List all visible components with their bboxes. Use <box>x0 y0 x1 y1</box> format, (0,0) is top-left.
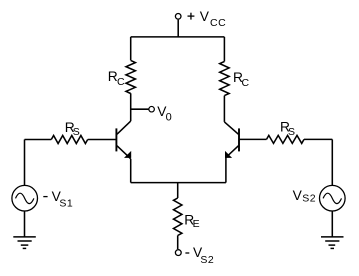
transistor Q1 base bar <box>115 128 117 151</box>
wire left collector branch lower <box>130 93 132 121</box>
minus sign of bottom VS2 label <box>185 252 189 254</box>
resistor RC right <box>220 62 229 96</box>
transistor Q2 emitter lead <box>226 146 239 158</box>
svg-text:0: 0 <box>166 112 173 124</box>
resistor RE <box>174 198 182 236</box>
node V0 terminal <box>149 106 155 112</box>
wire right source bottom <box>331 211 333 237</box>
node -VS2 terminal <box>175 250 181 256</box>
wire VCC stub <box>177 20 179 37</box>
wire top rail <box>131 36 225 38</box>
resistor RC left <box>126 60 135 93</box>
wire RE bottom <box>177 236 179 250</box>
wire V0 tap <box>131 108 149 110</box>
transistor Q1 emitter arrow <box>124 151 131 158</box>
transistor Q2 base bar <box>238 128 240 151</box>
wire left source top <box>24 140 26 186</box>
ground right <box>321 237 344 249</box>
resistor RS left <box>51 136 87 144</box>
wire right source top <box>331 139 333 185</box>
wire emitter rail <box>131 182 226 184</box>
transistor Q1 collector lead <box>117 121 131 134</box>
wire left collector branch upper <box>130 37 132 60</box>
svg-text:V: V <box>293 188 303 203</box>
wire Q2 emitter down <box>225 157 227 182</box>
node +VCC terminal <box>175 13 181 19</box>
wire right collector branch lower <box>223 96 225 122</box>
wire right base segment a <box>239 138 267 140</box>
wire left base segment b <box>25 139 52 141</box>
transistor Q2 collector lead <box>224 122 238 134</box>
ground left <box>13 237 36 249</box>
wire RE tap <box>177 183 179 198</box>
svg-text:E: E <box>193 218 201 230</box>
svg-text:S: S <box>288 126 296 138</box>
svg-text:CC: CC <box>210 17 226 29</box>
transistor Q1 emitter lead <box>117 146 131 159</box>
svg-text:S1: S1 <box>59 197 73 209</box>
minus sign of VS1 label <box>43 196 47 198</box>
svg-text:C: C <box>117 76 125 88</box>
source VS1 <box>12 185 38 211</box>
svg-text:S2: S2 <box>200 254 214 266</box>
svg-text:S2: S2 <box>302 193 316 205</box>
resistor RS right <box>267 135 305 143</box>
svg-text:C: C <box>242 77 250 89</box>
transistor Q2 emitter arrow <box>225 151 232 158</box>
wire right base segment b <box>304 138 332 140</box>
wire right collector branch upper <box>223 37 225 62</box>
wire left base segment a <box>88 139 117 141</box>
plus sign of VCC label <box>188 13 195 20</box>
wire left source bottom <box>24 211 26 237</box>
svg-text:V: V <box>200 9 210 24</box>
svg-text:S: S <box>73 126 81 138</box>
wire Q1 emitter down <box>130 159 132 183</box>
source VS2 <box>320 185 346 211</box>
